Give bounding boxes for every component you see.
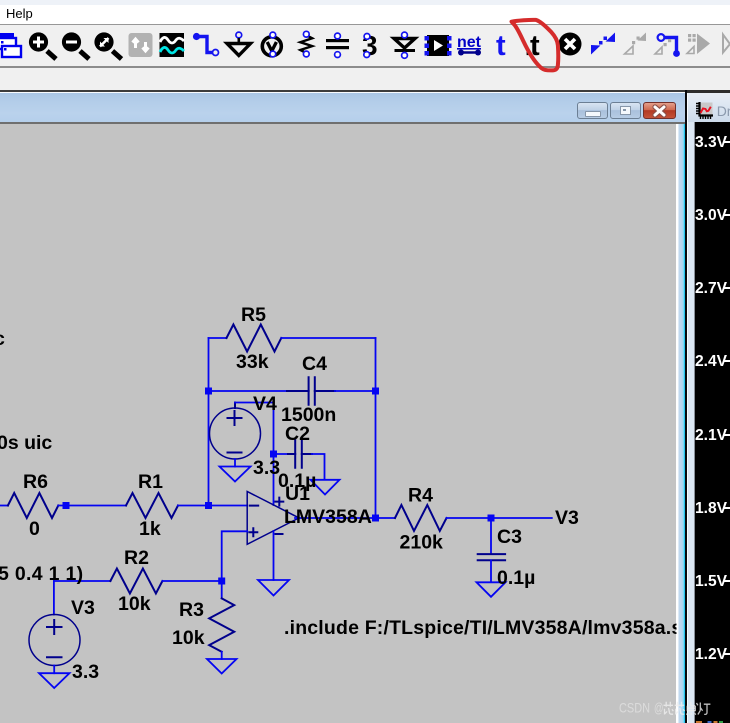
schematic canvas [0,124,676,723]
label C3 [497,526,522,548]
toolbar icon: draw wire [193,33,219,56]
net label V3 out [555,507,579,529]
voltage source V4 [210,403,261,460]
resistor R2 [110,569,162,594]
resistor R1 [126,493,178,518]
value 0 R6 [29,518,40,540]
capacitor C4 [287,377,335,404]
junction C4 right [372,388,379,395]
value 210k [400,532,444,554]
schematic window top border [0,90,685,92]
schematic right border strip [676,124,685,723]
junction C3 node [488,515,495,522]
label V3 source [71,597,95,619]
value 33k [236,351,269,373]
wire V4 top to Vplus rail [235,403,274,506]
wire C3 top lead [490,518,492,553]
wire C3 bottom lead [490,560,492,582]
灯 [697,703,711,715]
value 1k [139,518,161,540]
wire R4 to V3 out [447,517,552,519]
ground C3 [477,582,506,597]
ground op-amp [258,580,289,596]
label R1 [138,471,163,493]
wire R6 to R1 [58,505,126,507]
toolbar icon: place inductor [362,30,378,61]
芯 [664,702,674,715]
label R2 [124,547,149,569]
toolbar icon: place capacitor [326,33,349,57]
resistor R5 [227,325,282,352]
junction inverting node [205,502,212,509]
label C4 [302,353,327,375]
strip under toolbar [0,68,730,90]
label C2 [285,423,310,445]
toolbar icon: place component [425,35,452,56]
junction V+ rail / C2 [270,451,277,458]
waveform icon [696,102,713,119]
wire R2 row left [54,580,111,582]
svg-text:@: @ [654,700,664,716]
value 0.1u C3 [497,567,535,589]
label R3 [179,599,204,621]
directive fragment c [0,328,5,350]
capacitor C2 [288,440,312,467]
wire feedback top horizontal left segment [209,337,227,339]
toolbar icon: paste grayed [687,34,710,55]
toolbar icon: label net [457,34,482,56]
toolbar icon: delete [559,33,582,56]
toolbar icon: place label [262,32,281,57]
toolbar icon: text t [496,30,506,62]
toolbar icon: zoom extents [94,32,121,59]
label R4 [408,485,433,507]
waveform axis labels [686,90,730,723]
label R6 [23,471,48,493]
value 10k R3 [172,627,205,649]
toolbar strip [0,25,730,68]
wire C2 right to ground [312,454,325,480]
value 3.3 V4 [253,457,280,479]
toolbar icon: move [591,33,615,55]
window buttons [577,102,608,119]
junction output node [372,515,379,522]
dark gap between windows [685,90,687,723]
ground C2 [311,480,340,495]
toolbar icon: place diode [394,32,415,58]
capacitor C3 [478,554,505,560]
toolbar icon: waveform pane [160,33,185,57]
wire output row [295,517,395,519]
芯 [675,702,685,715]
resistor R4 [395,505,447,531]
svg-text:CSDN: CSDN [619,700,650,716]
ground R3 [207,659,237,674]
toolbar icon: pan grayed [129,33,153,57]
schematic window title bar [0,93,685,122]
value 3.3 V3 [72,661,99,683]
toolbar icon: run grayed [723,35,730,53]
menu bar [0,0,730,25]
directive fragment 0s uic [0,432,52,454]
resistor R6 [0,493,58,518]
waveform window [687,90,730,723]
directive include [284,617,695,639]
wire op-amp plus input [222,531,248,581]
ground V3 [39,666,70,689]
toolbar icon: undo wire [655,34,680,57]
junction R6-R1 [63,502,70,509]
wire feedback right vertical [375,338,377,518]
toolbar icon: drag grayed [625,33,647,55]
value 10k R2 [118,593,151,615]
value LMV358A [284,506,372,528]
toolbar icon: zoom out [62,32,89,59]
wire feedback top left vertical [208,338,210,506]
toolbar icon: zoom in [29,32,56,59]
toolbar icon: spice directive .t [527,30,540,62]
directive fragment sine params [0,563,83,585]
resistor R3 [209,581,234,659]
label V4 [253,393,277,415]
点 [687,702,696,715]
toolbar icons svg placeholder [0,0,730,70]
value 0.1u C2 [278,470,316,492]
label U1 [285,483,310,505]
wire C4 row left [209,390,288,392]
toolbar icon: place ground [227,32,251,55]
colored slivers at bottom of waveform pane [696,721,723,723]
ground V4 [220,459,251,482]
wire op-amp V- to ground [273,531,275,580]
wire R2 to node [162,580,221,582]
junction C4 left [205,388,212,395]
black plot area [694,122,730,723]
wire feedback top horizontal right segment [281,337,375,339]
voltage source V3 [29,581,80,666]
toolbar icon: place resistor [300,31,312,57]
wire C4 row right [335,390,376,392]
op-amp U1 [247,492,299,545]
junction divider node [218,578,225,585]
label R5 [241,304,266,326]
wire C2 left lead [274,453,289,455]
value 1500n [281,404,336,426]
wire R1 to inverting input [178,505,247,507]
toolbar icon: cascade windows [0,33,21,57]
